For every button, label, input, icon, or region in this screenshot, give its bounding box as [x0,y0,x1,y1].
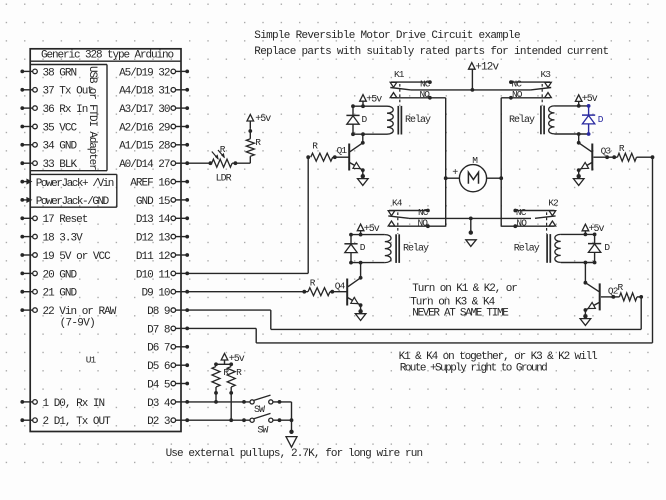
wire D9/10 to Q4 base resistor [187,290,308,294]
diode D K3 (blue) [577,104,604,136]
svg-text:Use external pullups, 2.7K, fo: Use external pullups, 2.7K, for long wir… [166,448,423,460]
pin 37 (37 Tx Out) [20,86,93,98]
svg-text:Relay: Relay [509,114,535,126]
svg-text:K3: K3 [541,69,552,80]
svg-text:D5 6: D5 6 [147,361,170,373]
ground center [466,217,476,247]
+5v divider [247,114,271,128]
svg-text:K1: K1 [394,69,405,80]
pin D9 10 [141,288,189,300]
svg-text:D8 9: D8 9 [147,306,170,318]
svg-text:22 Vin or RAW: 22 Vin or RAW [43,306,117,318]
note turn on K3K4 [410,296,495,308]
title annotation line 2 [254,46,608,58]
svg-text:A3/D17 30: A3/D17 30 [119,104,170,116]
svg-text:35 VCC: 35 VCC [43,122,78,134]
ground Q4 [355,305,366,320]
svg-text:A2/D16 29: A2/D16 29 [119,122,170,134]
ground Q3 [573,170,584,185]
svg-text:Q3: Q3 [601,145,612,156]
transistor Q3 [577,134,612,172]
pin AREF 16 [130,178,189,190]
IC U1 Generic 328 type Arduino body [30,49,181,432]
svg-text:PowerJack-/GND: PowerJack-/GND [36,196,110,208]
svg-text:+5v: +5v [366,94,382,105]
PowerJack-/GND pin [20,196,109,208]
switch SW1 [250,395,273,416]
wire D2/3 to SW [187,418,250,422]
svg-text:Relay: Relay [405,114,431,126]
svg-text:17 Reset: 17 Reset [43,214,88,226]
note pullup advice [166,448,423,460]
wire D8/9 to Q2 base resistor [187,295,643,329]
svg-text:33 BLK: 33 BLK [43,159,78,171]
svg-text:Generic 328 type Arduino: Generic 328 type Arduino [41,50,174,62]
pin A3/D17 30 [119,104,189,116]
svg-text:K4: K4 [392,197,403,208]
svg-text:D3 4: D3 4 [147,398,171,410]
svg-text:20 GND: 20 GND [43,269,78,281]
svg-text:Q1: Q1 [337,145,348,156]
svg-text:1 D0, Rx IN: 1 D0, Rx IN [43,398,105,410]
+12v supply [469,62,500,92]
svg-text:Relay: Relay [403,242,429,254]
pin 33 (33 BLK) [20,159,77,171]
svg-text:D12 13: D12 13 [136,233,170,245]
pin 19 (19 5V or VCC) [20,251,111,263]
svg-text:A0/D14 27: A0/D14 27 [119,159,170,171]
pin D11 12 [136,251,189,263]
pin A5/D19 32 [119,67,189,79]
svg-text:19 5V or VCC: 19 5V or VCC [43,251,112,263]
diode D K2 [584,233,611,265]
svg-text:D6 7: D6 7 [147,343,170,355]
pin A0/D14 27 [119,159,189,171]
transistor Q4 [335,263,363,307]
note route supply [400,362,547,374]
svg-text:Relay: Relay [514,243,540,255]
svg-text:SW: SW [257,425,268,436]
svg-text:Simple Reversible Motor Drive: Simple Reversible Motor Drive Circuit ex… [254,30,520,42]
wire K2 NO corner [501,225,515,227]
pin 18 (18 3.3V) [20,233,83,245]
svg-text:AREF 16: AREF 16 [130,178,170,190]
svg-text:34 GND: 34 GND [43,141,78,153]
svg-text:+12v: +12v [475,62,499,74]
wire K1 NO to left column [430,97,446,99]
wire D3/4 to SW [187,400,250,404]
svg-text:A4/D18 31: A4/D18 31 [119,86,171,98]
pin 20 (20 GND) [20,269,77,281]
svg-text:Q4: Q4 [335,280,346,291]
diode D K4 [344,233,365,265]
pin D10 11 [136,269,189,281]
pin A4/D18 31 [119,86,189,98]
svg-text:LDR: LDR [216,174,232,185]
resistor R Q3 base [594,143,653,161]
USB or FTDI Adapter sub-box [30,65,107,171]
svg-text:GND 15: GND 15 [136,196,170,208]
svg-text:37 Tx Out: 37 Tx Out [43,86,94,98]
relay K1 coil [353,106,431,135]
+5v K4 [357,224,379,235]
svg-text:+5v: +5v [582,94,598,105]
note turn on K1K2 [412,283,517,295]
svg-text:USB or FTDI Adapter: USB or FTDI Adapter [86,66,98,170]
+5v pullups [214,353,245,366]
+5v K2 [582,224,604,235]
note never same time [412,308,509,320]
resistor R pullup 2 [227,367,242,421]
resistor R Q2 base [601,282,641,301]
pin 1 (1 D0, Rx IN) [20,398,104,410]
svg-text:Route +Supply right to Ground: Route +Supply right to Ground [400,362,547,374]
svg-text:Turn on K1 & K2, or: Turn on K1 & K2, or [412,283,517,295]
transistor Q1 [337,134,365,172]
wire right motor column [499,98,503,227]
pin A2/D16 29 [119,122,189,134]
pin A1/D15 28 [119,141,189,153]
wire SW1 to ground column [273,400,292,404]
svg-text:D10 11: D10 11 [136,269,171,281]
ground Q1 [358,170,369,185]
relay K4 coil [351,234,429,263]
svg-text:SW: SW [254,405,265,416]
svg-text:18 3.3V: 18 3.3V [43,233,84,245]
+5v K3 [575,94,597,106]
relay K3 switch [509,69,551,106]
wire top common rail [411,89,531,91]
svg-text:+5v: +5v [255,114,271,125]
pin D6 7 [147,343,189,355]
pin D8 9 [147,306,189,318]
relay K1 switch [390,69,432,106]
svg-text:PowerJack+ /Vin: PowerJack+ /Vin [36,178,114,190]
(7-9V) note [60,318,95,330]
svg-text:D2 3: D2 3 [147,416,170,428]
svg-text:36 Rx In: 36 Rx In [43,104,88,116]
transistor Q2 [584,263,619,312]
wire left motor column [444,98,448,227]
pin D4 5 [147,379,189,391]
resistor R pullup 1 [212,367,229,402]
wire bottom common rail [409,217,531,219]
pin 35 (35 VCC) [20,122,77,134]
pin GND 15 [136,196,189,208]
svg-text:A1/D15 28: A1/D15 28 [119,141,170,153]
svg-text:21 GND: 21 GND [43,288,78,300]
svg-text:2 D1, Tx OUT: 2 D1, Tx OUT [43,416,112,428]
ground switches [286,402,297,447]
svg-text:D9 10: D9 10 [141,288,169,300]
svg-text:(7-9V): (7-9V) [60,318,95,330]
relay K2 coil [514,234,595,263]
svg-text:+5v: +5v [364,224,380,235]
resistor R Q1 base [311,141,349,162]
pin D7 8 [147,324,189,336]
svg-text:D4 5: D4 5 [147,379,170,391]
motor M [446,155,502,192]
pin 17 (17 Reset) [20,214,87,226]
pin D5 6 [147,361,189,373]
wire D7/8 to Q3 base resistor [187,155,654,343]
wire SW2 to ground column [273,418,292,422]
pin 22 (22 Vin or RAW) [20,306,116,318]
svg-text:NEVER AT SAME TIME: NEVER AT SAME TIME [412,308,509,320]
diode D K1 [346,104,367,136]
svg-text:U1: U1 [86,355,97,366]
pin 34 (34 GND) [20,141,77,153]
pin 36 (36 Rx In) [20,104,87,116]
U1 reference [86,355,97,366]
ground Q2 [580,310,591,325]
pin D2 3 [147,416,189,428]
wire D10/11 to Q1 base resistor [187,155,310,273]
note K1K4 together [399,351,598,363]
svg-text:A5/D19 32: A5/D19 32 [119,67,170,79]
PowerJack sub-box [30,174,117,207]
resistor R divider [246,128,261,163]
pin D13 14 [136,214,189,226]
pin 38 (38 GRN) [20,67,76,79]
svg-text:+5v: +5v [589,224,605,235]
svg-text:D7 8: D7 8 [147,324,170,336]
pin D3 4 [147,398,189,410]
svg-text:K2: K2 [548,197,559,208]
wire K4 NO corner [428,225,446,227]
switch SW2 [250,413,273,436]
+5v K1 [360,94,383,106]
relay K2 switch [513,197,559,234]
pin 2 (2 D1, Tx OUT) [20,416,111,428]
relay K4 switch [388,197,430,234]
svg-text:D13 14: D13 14 [136,214,171,226]
svg-text:38 GRN: 38 GRN [43,67,77,79]
resistor R Q4 base [308,277,347,295]
svg-text:Replace parts with suitably ra: Replace parts with suitably rated parts … [254,46,608,58]
title annotation line 1 [254,30,520,42]
wire pin27 to LDR [187,161,212,165]
wire K3 NO to right column [501,97,511,99]
pin 21 (21 GND) [20,288,77,300]
pin D12 13 [136,233,189,245]
PowerJack+ /Vin pin [20,178,113,190]
LDR resistor [212,144,238,185]
wire LDR to divider R [232,162,250,164]
svg-text:K1 & K4 on together, or K3 & K: K1 & K4 on together, or K3 & K2 will [399,351,598,363]
relay K3 coil [509,106,589,135]
svg-text:D11 12: D11 12 [136,251,170,263]
